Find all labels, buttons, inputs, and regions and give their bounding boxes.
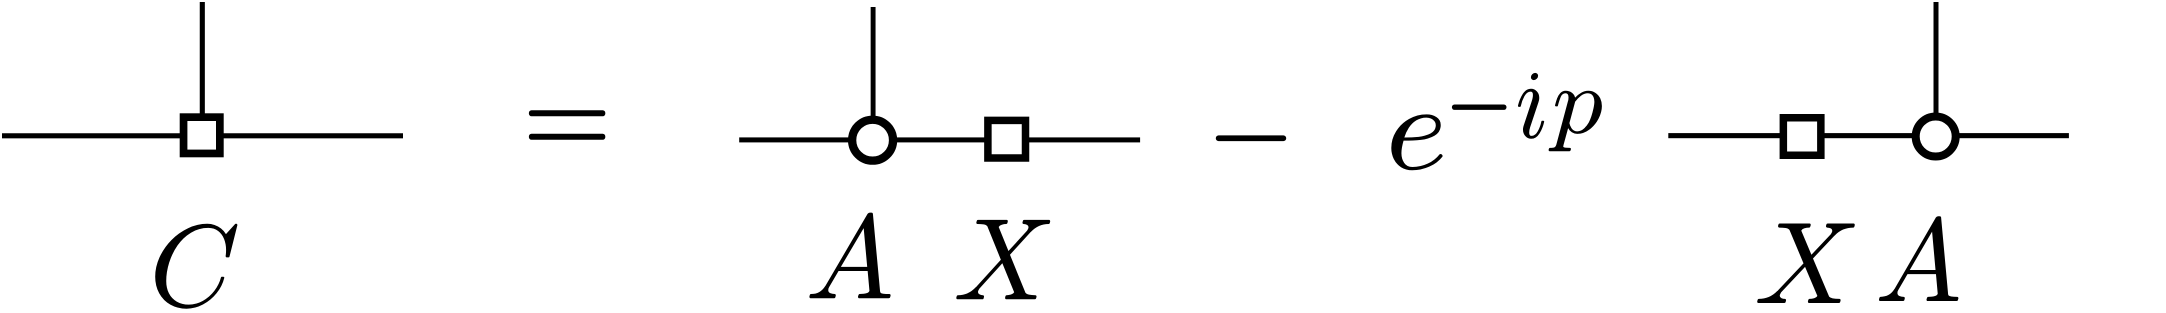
tensor A: circle node xyxy=(852,120,893,161)
wire: vertical physical leg of C tensor xyxy=(200,2,205,125)
tensor X: square node (right) xyxy=(1783,118,1821,156)
label C xyxy=(155,224,237,309)
label X (right) xyxy=(1757,224,1855,304)
tensor A: circle node (right) xyxy=(1916,117,1956,157)
equals sign xyxy=(529,110,605,116)
label A xyxy=(809,213,890,299)
wire: horizontal leg of X-A term xyxy=(1668,133,2069,138)
superscript i xyxy=(1518,73,1544,139)
label A (right) xyxy=(1879,216,1958,301)
wire: vertical physical leg on A tensor (right) xyxy=(1934,2,1939,120)
superscript p xyxy=(1549,91,1602,151)
tensor X: square node xyxy=(988,120,1026,158)
minus sign xyxy=(1216,135,1286,141)
wire: left horizontal leg of C tensor xyxy=(2,133,403,138)
factor e^(-ip): letter e xyxy=(1391,114,1442,170)
label X xyxy=(956,220,1050,299)
tensor C: square node xyxy=(184,117,220,153)
wire: vertical physical leg on A tensor xyxy=(871,7,876,130)
wire: horizontal leg of A-X term xyxy=(739,137,1140,142)
superscript minus xyxy=(1452,105,1507,110)
